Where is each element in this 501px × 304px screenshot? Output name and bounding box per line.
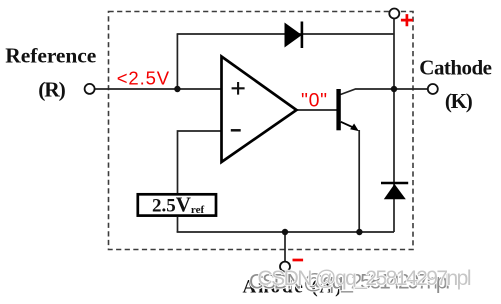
wire: reference input to op-amp + <box>95 88 222 90</box>
op-amp plus sign <box>232 82 245 95</box>
terminal: reference (R) <box>85 84 95 94</box>
2.5V reference box <box>138 194 216 215</box>
op-amp minus sign <box>231 129 241 132</box>
terminal: cathode (K) <box>428 84 438 94</box>
svg-text:"0": "0" <box>301 90 327 112</box>
op-amp U1 <box>222 57 297 163</box>
junction node at cathode <box>391 86 397 92</box>
wire: Vref box to anode rail <box>177 217 179 232</box>
junction node at R input <box>174 86 180 92</box>
wire: cathode output <box>394 88 428 90</box>
wire: top rail through diode to cathode line <box>177 33 394 35</box>
wire: anode bottom rail <box>177 231 394 233</box>
svg-text:(K): (K) <box>445 89 473 113</box>
wire: feedback vertical from R junction up to top rail <box>176 34 178 89</box>
junction node at emitter <box>356 229 362 235</box>
svg-text:Reference: Reference <box>5 44 96 68</box>
protection diode D2 (anode-cathode) <box>381 182 408 185</box>
junction node at anode drop <box>282 229 288 235</box>
svg-text:(R): (R) <box>38 78 66 102</box>
red minus at anode terminal <box>293 259 304 262</box>
IC boundary dashed box <box>109 12 414 250</box>
wire: op-amp output to base <box>297 109 337 111</box>
terminal: cathode top <box>389 9 399 19</box>
svg-text:CSDN @qq_25814297npl: CSDN @qq_25814297npl <box>258 267 472 290</box>
wire: emitter vertical <box>358 130 360 232</box>
diode D1 (reference to cathode) <box>285 24 301 47</box>
wire: cathode vertical line <box>393 19 395 232</box>
wire: anode terminal drop <box>284 232 286 262</box>
red plus at cathode terminal <box>401 14 413 26</box>
transistor Q1 base bar <box>336 89 340 130</box>
svg-text:<2.5V: <2.5V <box>117 67 170 88</box>
wire: op-amp minus input down to Vref box <box>178 131 222 193</box>
terminal: anode (A) <box>280 262 290 272</box>
wire: collector to cathode node <box>341 89 395 95</box>
transistor Q1 emitter with arrow <box>341 122 354 128</box>
svg-text:Cathode: Cathode <box>419 55 492 79</box>
